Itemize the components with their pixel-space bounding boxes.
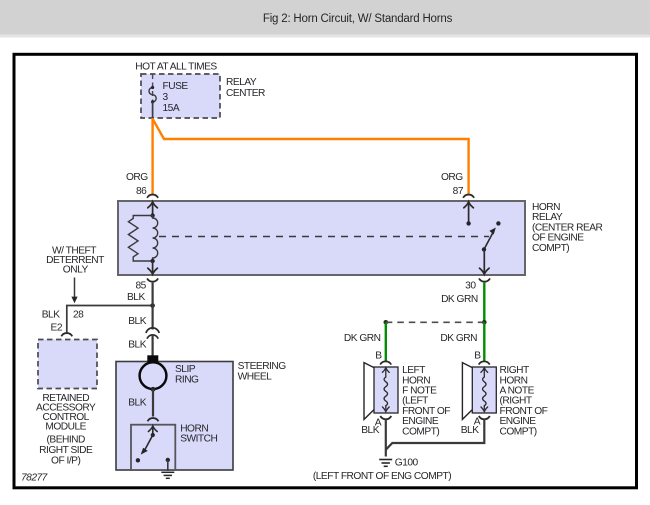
label W/ THEFT DETERRENT ONLY	[46, 245, 104, 275]
arrow from theft label to wire	[74, 278, 76, 299]
node dot slip ring output	[151, 387, 156, 392]
svg-text:COMPT): COMPT)	[532, 243, 569, 254]
right horn body	[462, 363, 496, 420]
svg-text:BLK: BLK	[128, 316, 146, 327]
relay switch fixed contact	[496, 221, 500, 225]
label ORG 87	[441, 172, 464, 197]
wire BLK 28 branch	[67, 306, 153, 335]
relay coil (inductor)	[153, 216, 158, 262]
splice dot right	[482, 320, 487, 325]
wire BLK slip ring to horn switch	[152, 389, 154, 416]
horn switch arm	[144, 435, 153, 451]
label LEFT HORN F NOTE	[402, 365, 450, 437]
left horn body	[364, 363, 398, 420]
connector left horn A	[380, 416, 391, 419]
svg-text:(LEFT FRONT OF ENG COMPT): (LEFT FRONT OF ENG COMPT)	[313, 471, 451, 482]
node dot coil bottom	[150, 259, 154, 263]
connector E2	[61, 333, 72, 336]
svg-text:OF I/P): OF I/P)	[51, 455, 80, 466]
svg-text:BLK: BLK	[128, 398, 146, 409]
svg-text:78277: 78277	[21, 473, 48, 484]
connector pin 86	[147, 195, 158, 198]
label HORN SWITCH	[180, 423, 217, 444]
wire DK GRN from pin 30	[483, 283, 485, 323]
relay pin 85 exit arrow	[148, 261, 158, 274]
label SLIP RING	[175, 364, 199, 386]
svg-text:B: B	[375, 351, 382, 362]
svg-text:85: 85	[136, 281, 147, 292]
svg-text:SLIP: SLIP	[175, 364, 196, 375]
label ORG 86	[126, 172, 148, 197]
wire orange branch to pin 87	[153, 119, 469, 195]
relay switch arm	[484, 233, 493, 250]
horn switch contact dot	[151, 433, 155, 437]
wire BLK to slip ring	[152, 335, 154, 357]
fuse box (relay center)	[141, 74, 220, 118]
wire DK GRN to right horn	[483, 322, 485, 361]
svg-text:30: 30	[465, 280, 476, 291]
slip ring terminal block	[147, 355, 158, 361]
svg-text:28: 28	[73, 310, 84, 321]
arrowhead theft pointer	[71, 297, 77, 304]
wire horn switch to ground	[167, 460, 169, 471]
svg-text:RIGHT SIDE: RIGHT SIDE	[39, 445, 93, 456]
svg-text:15A: 15A	[163, 103, 180, 114]
dashed splice wire	[386, 321, 485, 323]
svg-text:RING: RING	[175, 375, 199, 386]
left horn coil	[382, 368, 389, 412]
svg-text:RELAY: RELAY	[226, 77, 257, 88]
relay switch arm arrowhead	[489, 228, 495, 235]
svg-text:MODULE: MODULE	[45, 421, 86, 432]
wire BLK from pin 85 down	[152, 283, 154, 330]
title bar	[0, 0, 650, 35]
connector right horn A	[479, 416, 490, 419]
node junction on BLK wire	[150, 303, 155, 308]
svg-text:86: 86	[136, 186, 147, 197]
connector pin 87	[463, 195, 474, 198]
svg-text:COMPT): COMPT)	[500, 426, 537, 437]
svg-text:DK GRN: DK GRN	[440, 333, 477, 344]
wire stub below fuse	[152, 102, 154, 118]
label STEERING WHEEL	[238, 361, 287, 382]
svg-text:ORG: ORG	[441, 172, 463, 183]
label 85 BLK	[127, 281, 147, 304]
svg-text:STEERING: STEERING	[238, 361, 287, 372]
horn switch box	[131, 425, 175, 470]
connector left horn B	[380, 361, 391, 364]
svg-text:SWITCH: SWITCH	[180, 434, 217, 445]
label RETAINED ACCESSORY CONTROL MODULE	[36, 393, 96, 467]
fuse value label	[163, 81, 189, 114]
connector pin 30	[479, 278, 490, 281]
svg-text:HOT AT ALL TIMES: HOT AT ALL TIMES	[135, 62, 217, 73]
relay pin 87 entry arrow	[464, 202, 474, 224]
svg-text:B: B	[474, 351, 481, 362]
svg-text:Fig 2: Horn Circuit, W/ Standa: Fig 2: Horn Circuit, W/ Standard Horns	[263, 13, 453, 25]
svg-text:87: 87	[453, 186, 464, 197]
wire DK GRN to left horn	[385, 322, 387, 361]
label HORN RELAY	[532, 202, 603, 254]
svg-text:ONLY: ONLY	[63, 265, 89, 276]
label RIGHT HORN A NOTE	[500, 365, 548, 437]
label RELAY CENTER	[226, 77, 265, 99]
ground (horn switch)	[161, 472, 174, 478]
wire BLK left horn to ground	[385, 419, 387, 457]
node dot pin 87 branch	[466, 221, 470, 225]
slip ring	[140, 362, 167, 389]
svg-text:DK GRN: DK GRN	[344, 333, 381, 344]
horn relay box	[118, 201, 525, 275]
fuse F3 15A symbol	[149, 86, 156, 104]
relay switch pivot dot	[482, 247, 486, 251]
svg-text:COMPT): COMPT)	[402, 426, 439, 437]
node dot coil top	[150, 213, 154, 217]
connector right horn B	[479, 361, 490, 364]
wire orange from fuse to pin 86	[151, 118, 153, 195]
connector pin 85	[147, 278, 158, 281]
svg-text:BLK: BLK	[361, 425, 379, 436]
splice dot left	[384, 320, 389, 325]
steering wheel box	[116, 362, 233, 471]
svg-text:CENTER: CENTER	[226, 88, 265, 99]
horn switch entry arrow	[148, 426, 157, 435]
relay pin 30 exit arrow	[480, 249, 490, 274]
horn switch arm arrowhead	[141, 448, 148, 455]
svg-text:(BEHIND: (BEHIND	[47, 434, 86, 445]
horn switch ground contact	[166, 458, 170, 462]
horn switch pivot dot	[136, 458, 140, 462]
svg-text:BLK: BLK	[42, 310, 60, 321]
label 30 DK GRN	[441, 280, 478, 305]
svg-text:BLK: BLK	[127, 292, 145, 303]
dashed actuation line	[159, 236, 489, 238]
svg-text:DK GRN: DK GRN	[441, 294, 478, 305]
inline connector on BLK wire	[146, 328, 159, 339]
retained accessory control module box	[38, 340, 97, 389]
connector above horn switch	[148, 418, 159, 421]
svg-text:FUSE: FUSE	[163, 81, 189, 92]
svg-text:E2: E2	[51, 323, 63, 334]
svg-text:ORG: ORG	[126, 172, 148, 183]
svg-text:G100: G100	[395, 458, 419, 469]
svg-text:WHEEL: WHEEL	[238, 371, 273, 382]
relay pin 86 entry arrow	[148, 202, 158, 216]
ground G100	[379, 460, 392, 467]
wire BLK right horn to ground	[386, 419, 485, 450]
svg-text:3: 3	[163, 92, 169, 103]
relay resistor	[128, 216, 152, 262]
label BLK 28	[42, 310, 84, 321]
right horn coil	[481, 368, 488, 412]
svg-text:BLK: BLK	[128, 340, 146, 351]
svg-text:BLK: BLK	[461, 425, 479, 436]
